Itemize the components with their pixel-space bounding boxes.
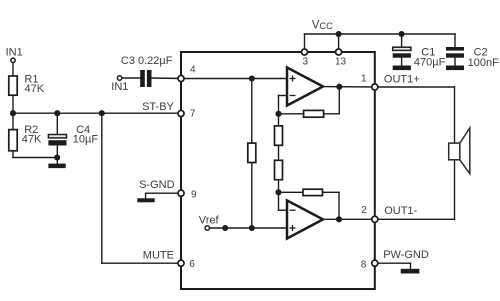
svg-text:1: 1 [361, 74, 367, 85]
svg-text:100nF: 100nF [468, 57, 499, 69]
svg-text:7: 7 [190, 109, 196, 120]
svg-text:470µF: 470µF [414, 57, 446, 69]
svg-text:OUT1-: OUT1- [384, 205, 417, 217]
svg-text:2: 2 [361, 205, 367, 216]
svg-text:C3 0.22µF: C3 0.22µF [121, 55, 173, 67]
svg-text:MUTE: MUTE [143, 249, 174, 261]
svg-text:PW-GND: PW-GND [383, 249, 429, 261]
svg-text:Vref: Vref [199, 214, 220, 226]
svg-text:47K: 47K [25, 83, 45, 95]
svg-text:10µF: 10µF [73, 133, 99, 145]
svg-text:9: 9 [191, 190, 197, 201]
svg-text:OUT1+: OUT1+ [384, 73, 420, 85]
svg-text:8: 8 [361, 260, 367, 271]
svg-text:S-GND: S-GND [139, 179, 175, 191]
svg-text:ST-BY: ST-BY [142, 101, 174, 113]
svg-text:3: 3 [303, 56, 309, 67]
svg-text:CC: CC [319, 21, 333, 31]
svg-text:IN1: IN1 [6, 47, 23, 59]
svg-text:47K: 47K [22, 133, 42, 145]
svg-text:6: 6 [189, 259, 195, 270]
svg-text:IN1: IN1 [111, 81, 128, 93]
svg-text:4: 4 [190, 65, 196, 76]
svg-text:13: 13 [335, 57, 347, 68]
